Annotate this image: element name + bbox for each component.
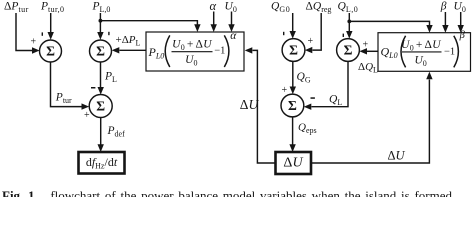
wire U0 input right block bbox=[460, 12, 462, 26]
svg-text:U0+ΔU: U0+ΔU bbox=[172, 39, 212, 53]
arrowhead alpha into block U1 bbox=[211, 24, 217, 32]
svg-text:U0: U0 bbox=[225, 1, 237, 15]
wire alpha input bbox=[213, 12, 215, 26]
arrowhead into S2 top bbox=[97, 32, 103, 40]
svg-text:ΔU: ΔU bbox=[388, 149, 406, 163]
arrowhead into S3 left bbox=[82, 103, 90, 109]
arrowhead U0 into block U1 bbox=[228, 24, 234, 32]
svg-text:PL: PL bbox=[104, 70, 117, 84]
svg-text:ΔU: ΔU bbox=[283, 156, 303, 171]
box dU bbox=[276, 152, 312, 174]
svg-text:β: β bbox=[459, 30, 466, 41]
svg-text:U0: U0 bbox=[454, 0, 466, 14]
block U1 formula bbox=[148, 30, 238, 68]
arrowhead into S1 top bbox=[48, 32, 54, 40]
svg-text:PL,0: PL,0 bbox=[92, 1, 111, 15]
arrowhead into S4 top bbox=[290, 31, 296, 39]
tick S5 top bbox=[343, 34, 344, 37]
wire P_L,0 branch to block U1 bbox=[100, 21, 197, 25]
svg-text:−1: −1 bbox=[444, 47, 455, 58]
arrowhead into S1 left bbox=[32, 47, 40, 53]
arrowhead P_L,0 branch into block U1 bbox=[194, 24, 200, 32]
svg-text:+: + bbox=[84, 110, 90, 121]
svg-text:+: + bbox=[282, 85, 288, 96]
summing junction S5 bbox=[337, 39, 360, 62]
wire S6 output to dU box bbox=[292, 117, 294, 145]
wire S3 output to frequency box bbox=[100, 118, 102, 146]
wire P_L,0 into S2 bbox=[99, 13, 101, 33]
svg-text:QG0: QG0 bbox=[271, 1, 291, 15]
wire S1 output to S3 bbox=[51, 62, 83, 107]
junction node P_L,0 bbox=[99, 19, 103, 23]
arrowhead into S3 top bbox=[98, 87, 104, 95]
arrowhead dU into block U2 bottom bbox=[426, 72, 432, 80]
svg-text:Σ: Σ bbox=[344, 42, 353, 57]
wire U0 input left block bbox=[231, 12, 233, 26]
arrowhead Q_L,0 branch into block U2 bbox=[426, 25, 432, 33]
svg-text:+: + bbox=[31, 37, 37, 48]
arrowhead into S2 right bbox=[112, 47, 120, 53]
svg-text:+: + bbox=[363, 40, 369, 51]
summing junction S4 bbox=[282, 39, 305, 62]
wire block U1 output to S2 bbox=[120, 49, 147, 51]
svg-text:QL: QL bbox=[329, 94, 342, 108]
box df/dt bbox=[79, 152, 125, 174]
svg-text:Σ: Σ bbox=[46, 43, 55, 58]
svg-text:ΔPtur: ΔPtur bbox=[4, 1, 29, 15]
svg-text:QG: QG bbox=[297, 71, 311, 85]
block U2 load Q box bbox=[378, 33, 471, 72]
wire dQ_reg into S4 bbox=[313, 13, 322, 50]
arrowhead into S5 right bbox=[359, 48, 367, 54]
wire dP_tur input bbox=[16, 13, 34, 51]
wire Q_L,0 into S5 bbox=[348, 13, 350, 32]
wire S4 output to S6 bbox=[292, 61, 294, 88]
wire Q_G0 into S4 bbox=[292, 13, 294, 32]
wire beta input bbox=[444, 12, 446, 26]
arrowhead beta into block U2 bbox=[442, 25, 448, 33]
svg-text:Pdef: Pdef bbox=[107, 125, 126, 139]
arrowhead into S4 right bbox=[305, 47, 312, 53]
svg-text:α: α bbox=[230, 30, 237, 42]
arrowhead into df/dt box bbox=[98, 144, 104, 152]
svg-text:ΔU: ΔU bbox=[240, 97, 260, 112]
svg-text:Σ: Σ bbox=[96, 43, 105, 58]
svg-text:ΔQL: ΔQL bbox=[358, 61, 378, 75]
summing junction S2 bbox=[90, 40, 112, 62]
svg-text:ΔQreg: ΔQreg bbox=[306, 1, 332, 15]
svg-text:Fig. 1 flowchart of the power: Fig. 1 flowchart of the power balance mo… bbox=[2, 188, 452, 197]
wire P_tur,0 into S1 bbox=[50, 13, 52, 33]
tick S1 top bbox=[42, 32, 43, 35]
arrowhead into dU box bbox=[289, 144, 295, 152]
wire dU feedback right to block U2 bbox=[311, 80, 429, 164]
sign minus S6 right bbox=[311, 97, 315, 99]
svg-text:U0+ΔU: U0+ΔU bbox=[401, 39, 441, 53]
svg-text:β: β bbox=[440, 0, 447, 12]
wire block U2 output to S5 bbox=[367, 50, 378, 52]
svg-text:QL,0: QL,0 bbox=[338, 1, 359, 15]
wire S2 output to S3 bbox=[100, 62, 102, 88]
arrowhead into S5 top bbox=[346, 31, 352, 39]
summing junction S3 bbox=[89, 95, 112, 118]
sign minus S3 top bbox=[91, 87, 95, 89]
svg-text:+ΔPL: +ΔPL bbox=[116, 34, 141, 48]
block U2 formula bbox=[381, 30, 466, 68]
arrowhead into S6 top bbox=[290, 87, 296, 95]
arrowhead dU into block U1 right bbox=[245, 47, 253, 53]
svg-text:−1: −1 bbox=[214, 46, 225, 57]
tick S2 top bbox=[108, 32, 109, 35]
summing junction S6 bbox=[281, 94, 304, 117]
wire Q_L,0 branch to block U2 bbox=[349, 21, 429, 25]
arrowhead into S6 right bbox=[304, 104, 312, 110]
wire dU feedback left to block U1 bbox=[253, 50, 276, 163]
tick S4 top bbox=[283, 32, 284, 35]
summing junction S1 bbox=[40, 40, 62, 62]
svg-text:+: + bbox=[308, 36, 314, 47]
arrowhead U0 into block U2 bbox=[458, 25, 464, 33]
svg-text:Qeps: Qeps bbox=[298, 121, 317, 135]
svg-text:Ptur,0: Ptur,0 bbox=[40, 1, 64, 15]
svg-text:Σ: Σ bbox=[288, 98, 297, 113]
junction node Q_L,0 bbox=[347, 20, 351, 24]
svg-text:Ptur: Ptur bbox=[55, 91, 72, 105]
svg-text:Σ: Σ bbox=[96, 98, 105, 113]
block U1 load P box bbox=[146, 32, 244, 71]
svg-text:Σ: Σ bbox=[289, 42, 298, 57]
svg-text:α: α bbox=[210, 0, 217, 13]
wire S5 output to S6 bbox=[312, 61, 349, 106]
